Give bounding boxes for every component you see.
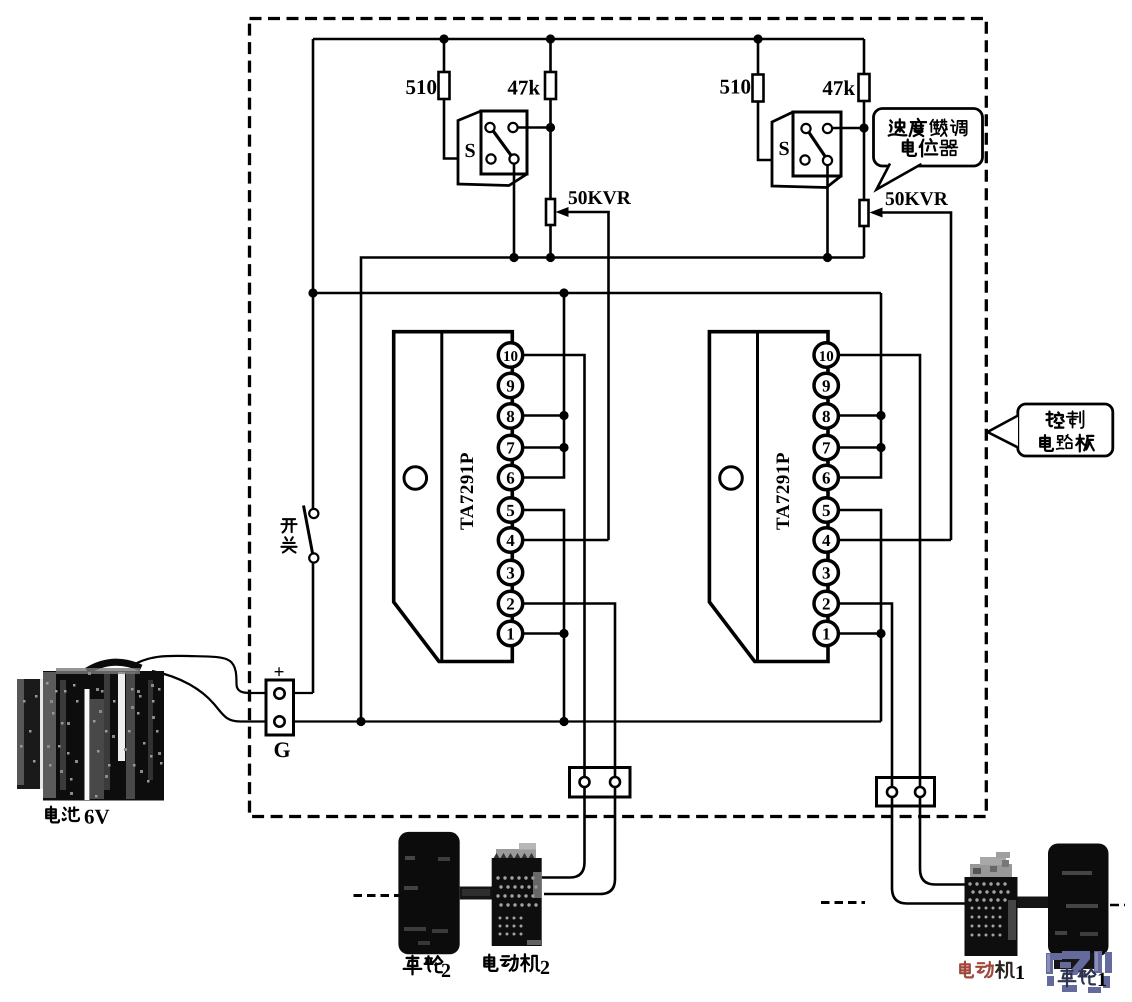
U1 pin 5 (498, 498, 522, 522)
junction S2 to R4 line (859, 123, 868, 132)
axle dashed line left (354, 894, 400, 897)
svg-text:510: 510 (406, 75, 438, 99)
wire U1 pin8 stub (522, 414, 564, 417)
svg-text:50KVR: 50KVR (568, 188, 632, 209)
wire U2 pin5 chain to ground bus (838, 510, 881, 722)
label 车轮2 (404, 956, 443, 974)
wire U1 pin2 to motor2 connector (522, 604, 615, 895)
U1 pin 6 (498, 465, 522, 489)
wire bus1 (switch common bus) with left drop (361, 258, 864, 722)
junction U2 pin8 (876, 411, 885, 420)
svg-text:3: 3 (506, 563, 515, 582)
wire bus2 (mid bus to pin6 chains) (313, 292, 881, 295)
U2 pin 9 (814, 373, 838, 397)
U1 pin 2 (498, 591, 522, 615)
axle dashed line right (821, 901, 865, 904)
U2 pin 7 (814, 435, 838, 459)
U2 pin 5 (814, 498, 838, 522)
potentiometer RP2 50KVR right (860, 200, 952, 540)
U1 pin 3 (498, 560, 522, 584)
svg-text:4: 4 (822, 531, 831, 550)
svg-text:10: 10 (503, 349, 518, 365)
switch S1 (left DPDT box) (458, 111, 551, 258)
svg-text:9: 9 (822, 376, 831, 395)
callout bubble 速度微调电位器 (874, 109, 983, 191)
callout bubble 控制电路板 (988, 404, 1113, 456)
wheel 车轮1 (1048, 844, 1109, 957)
U1 pin 9 (498, 373, 522, 397)
U1 pin 8 (498, 404, 522, 428)
svg-text:G: G (273, 737, 290, 762)
junction U2 pin7 (876, 443, 885, 452)
U1 pin 7 (498, 435, 522, 459)
svg-text:2: 2 (441, 960, 451, 982)
svg-text:8: 8 (506, 407, 515, 426)
svg-text:510: 510 (720, 75, 752, 99)
U1 index hole (404, 467, 427, 490)
wire top supply bus (313, 38, 864, 41)
junction top bus / R2 (546, 34, 555, 43)
switch S2 (right DPDT box) (772, 112, 864, 258)
junction U1 pin7 (559, 443, 568, 452)
svg-text:TA7291P: TA7291P (773, 452, 794, 530)
U2 index hole (720, 467, 743, 490)
svg-text:2: 2 (506, 594, 515, 613)
control board dashed border (250, 19, 987, 817)
svg-text:7: 7 (822, 438, 831, 457)
connector J2 terminals (580, 777, 621, 787)
wire left vertical from top bus to switch (312, 39, 315, 509)
svg-text:6: 6 (506, 468, 515, 487)
svg-text:8: 8 (822, 407, 831, 426)
wire U1 pin6 chain to bus2 (522, 293, 564, 478)
wire U1 pin7 stub (522, 446, 564, 449)
wire U2 pin6 chain to bus2 (838, 293, 881, 478)
wire U2 pin1 stub (838, 632, 881, 635)
motor 电动机1 (965, 852, 1018, 956)
motor 电动机2 (492, 843, 542, 946)
U1 pin 1 (498, 621, 522, 645)
connector J1 (motor1) (877, 778, 935, 807)
svg-text:3: 3 (822, 563, 831, 582)
svg-text:2: 2 (540, 957, 550, 979)
U2 pin 3 (814, 560, 838, 584)
junction bus2 / left vertical (308, 288, 317, 297)
junction bus1 / S1 pole (509, 253, 518, 262)
svg-text:9: 9 (506, 376, 515, 395)
svg-text:1: 1 (1015, 962, 1025, 984)
svg-text:7: 7 (506, 438, 515, 457)
svg-text:47k: 47k (822, 76, 855, 100)
junction bus1 / RP1 (546, 253, 555, 262)
terminal block +/G (266, 680, 294, 735)
battery 6V pack (17, 662, 164, 800)
resistor R4 47k right (859, 39, 870, 200)
junction ground bus / U1 pin5 (559, 717, 568, 726)
wire U1 pin4 to pot wiper (522, 539, 609, 542)
svg-text:S: S (464, 140, 475, 162)
junction top bus / R1 (439, 34, 448, 43)
op-amp driver U2 TA7291P body (709, 332, 828, 662)
svg-text:1: 1 (1097, 969, 1107, 991)
U2 pin 4 (814, 528, 838, 552)
U1 pin 10 (498, 343, 522, 367)
wire U2 pin10 to motor1 connector (838, 355, 965, 885)
svg-text:2: 2 (822, 594, 831, 613)
wire U1 pin5 chain to ground bus (522, 510, 564, 722)
label 开关 (281, 519, 296, 552)
U1 pin 4 (498, 528, 522, 552)
resistor R2 47k left (545, 39, 556, 199)
svg-text:6: 6 (822, 468, 831, 487)
svg-text:4: 4 (506, 531, 515, 550)
label 电动机1 (960, 962, 993, 978)
wheel 车轮2 (398, 832, 459, 954)
svg-text:47k: 47k (507, 76, 540, 100)
potentiometer RP1 50KVR left (546, 199, 609, 540)
label 电池6V (46, 807, 79, 823)
wire U1 pin10 to motor2 connector (522, 355, 585, 878)
svg-text:10: 10 (819, 349, 834, 365)
junction S1 to R2 line (546, 123, 555, 132)
svg-text:6V: 6V (84, 805, 110, 829)
junction top bus / R3 (753, 34, 762, 43)
svg-text:5: 5 (822, 501, 831, 520)
U2 pin 10 (814, 343, 838, 367)
shaft motor2-wheel2 (460, 887, 493, 900)
watermark logo (1054, 953, 1094, 969)
wire U2 pin7 stub (838, 446, 881, 449)
svg-text:TA7291P: TA7291P (457, 452, 478, 530)
junction bus1 / S2 pole (823, 253, 832, 262)
junction U1 pin8 (559, 411, 568, 420)
junction U2 pin1 (876, 629, 885, 638)
U2 pin 2 (814, 591, 838, 615)
label 电动机2 (484, 954, 539, 971)
U2 pin 8 (814, 404, 838, 428)
shaft motor1-wheel1 (1018, 897, 1049, 909)
op-amp driver U1 TA7291P body (394, 332, 513, 662)
junction U1 pin1 (559, 629, 568, 638)
resistor R3 510 right (753, 39, 801, 160)
wire U1 pin1 stub (522, 632, 564, 635)
label 车轮1 (1059, 969, 1096, 987)
svg-text:+: + (274, 662, 285, 683)
svg-text:1: 1 (506, 624, 515, 643)
svg-text:S: S (778, 138, 789, 160)
junction bus2 / U1 pin6 chain (559, 288, 568, 297)
connector J1 terminals (887, 787, 925, 797)
wire U2 pin2 to motor1 connector (838, 604, 965, 904)
wire U2 pin4 to pot wiper (838, 539, 951, 542)
wire battery - lead and ground bus3 (152, 671, 881, 722)
resistor R1 510 left (439, 39, 487, 159)
wire from switch to + terminal (312, 563, 315, 694)
svg-text:50KVR: 50KVR (885, 189, 949, 210)
wire battery + lead to terminal (130, 656, 313, 693)
U2 pin 1 (814, 621, 838, 645)
axle dashed line far right (1110, 904, 1125, 907)
switch S3 power (开关) (304, 506, 319, 563)
junction ground bus / bus1 drop (356, 717, 365, 726)
wire U2 pin8 stub (838, 414, 881, 417)
svg-text:5: 5 (506, 501, 515, 520)
U2 pin 6 (814, 465, 838, 489)
connector J2 (motor2) (570, 768, 631, 798)
svg-text:1: 1 (822, 624, 831, 643)
